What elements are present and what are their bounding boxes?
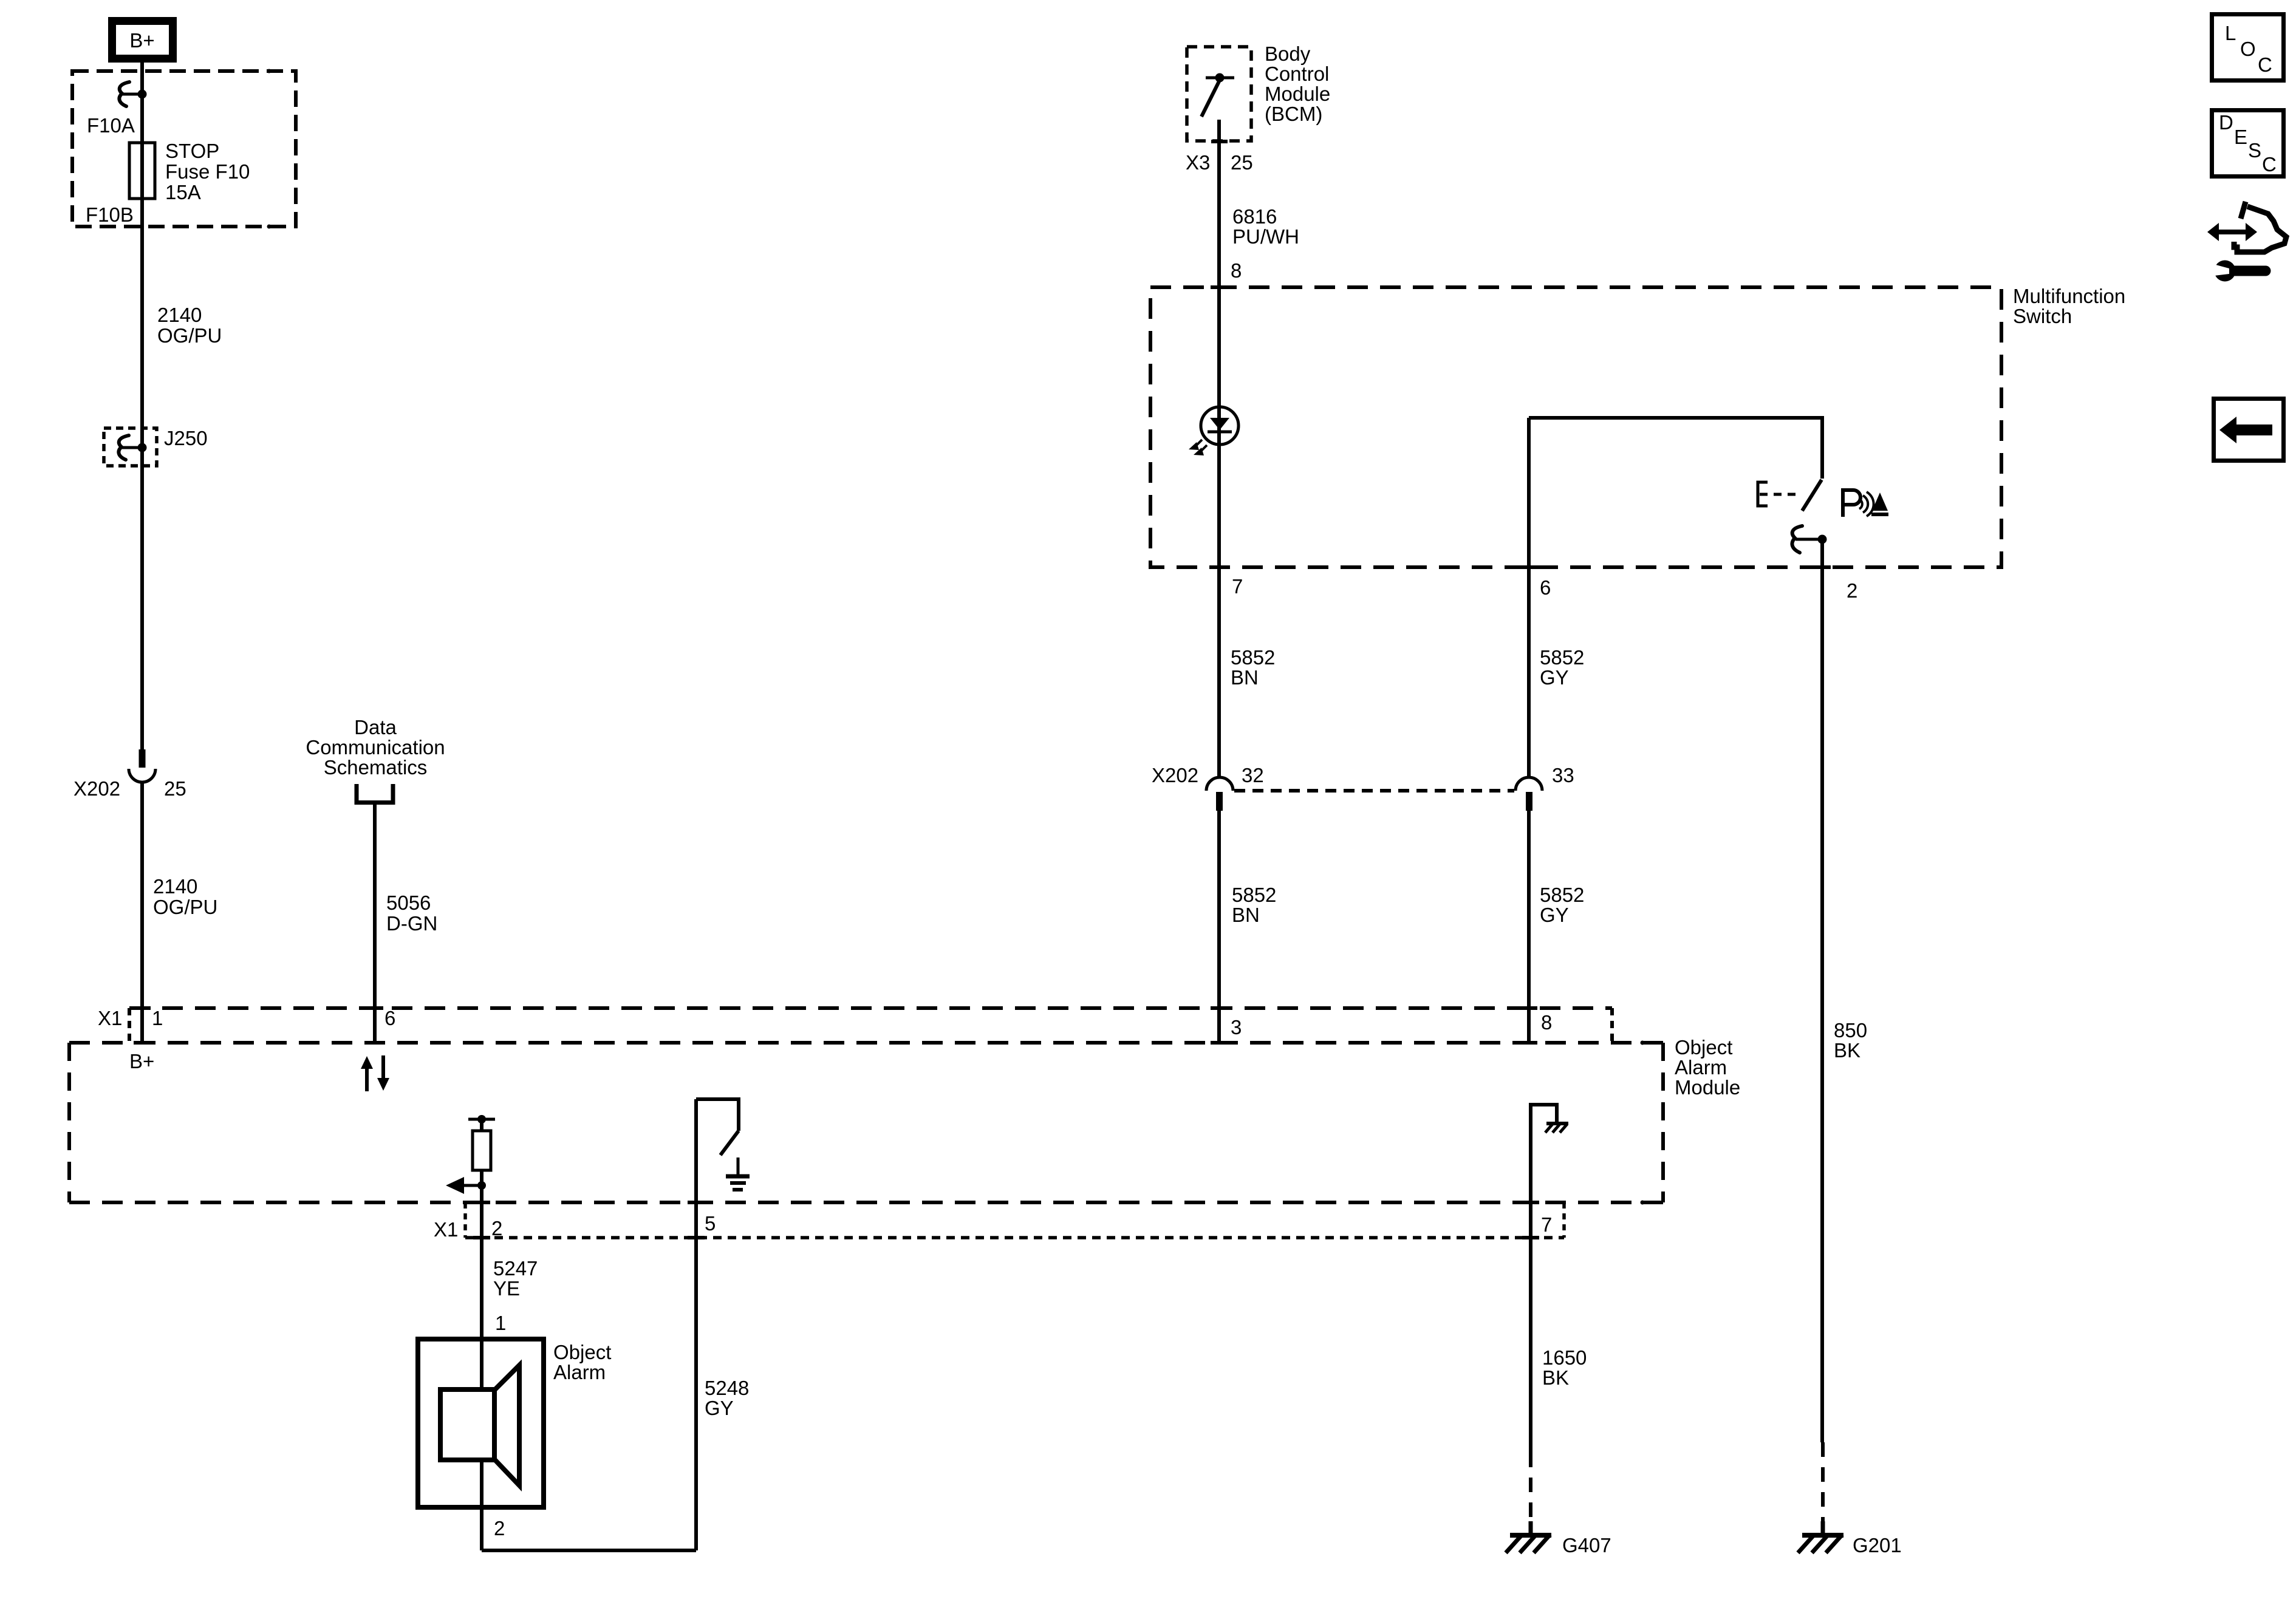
svg-text:Body: Body: [1265, 43, 1311, 65]
LED cathode bar: [1208, 431, 1232, 434]
wire pin5 vertical: [694, 1099, 698, 1550]
internal switch blade: [720, 1131, 739, 1155]
svg-text:OG/PU: OG/PU: [153, 896, 217, 918]
svg-text:2: 2: [494, 1517, 505, 1539]
svg-text:Module: Module: [1265, 83, 1330, 105]
bidirectional data arrows up arrow: [365, 1066, 369, 1091]
svg-text:1650: 1650: [1542, 1346, 1587, 1369]
BCM internal switch bar: [1206, 77, 1234, 80]
icon back arrow: [2219, 417, 2272, 443]
svg-text:D: D: [2219, 111, 2233, 134]
svg-text:L: L: [2225, 22, 2236, 44]
svg-text:S: S: [2248, 139, 2261, 162]
svg-text:G201: G201: [1853, 1534, 1902, 1556]
object alarm module dash-dot dot bottom line: [1641, 1201, 1645, 1205]
wire resistor to junction: [480, 1170, 483, 1185]
internal earth ground stub: [737, 1157, 740, 1174]
connector X202 pin 33 female cap: [1515, 777, 1542, 791]
connector X202 pin 25 male pin: [139, 749, 146, 768]
svg-text:1: 1: [495, 1312, 506, 1334]
internal sensor feed junction dot: [477, 1115, 486, 1123]
wire switch feed vertical GY: [1527, 418, 1531, 778]
LED diode triangle: [1210, 418, 1229, 430]
svg-text:5852: 5852: [1540, 646, 1584, 669]
svg-text:X1: X1: [98, 1007, 122, 1029]
svg-text:D-GN: D-GN: [386, 912, 437, 935]
pin tick wire6 multifunction bottom: [1520, 565, 1537, 569]
pin tick wire5 module bottom: [688, 1201, 705, 1204]
svg-text:BK: BK: [1542, 1366, 1569, 1389]
connector X202 pin 32 male pin: [1216, 792, 1223, 811]
svg-text:2140: 2140: [157, 304, 202, 326]
svg-text:Alarm: Alarm: [1675, 1056, 1727, 1079]
wire switch feed horizontal: [1529, 416, 1822, 420]
svg-text:X1: X1: [434, 1218, 458, 1241]
pin tick wire1 lower: [134, 1041, 151, 1045]
pin tick wire6 lower: [366, 1041, 383, 1045]
svg-text:5248: 5248: [705, 1377, 749, 1399]
pin tick wire3 lower: [1211, 1041, 1228, 1045]
svg-text:X3: X3: [1186, 151, 1210, 174]
park assist switch blade: [1802, 480, 1822, 511]
svg-text:7: 7: [1232, 575, 1243, 598]
park assist switch actuator bracket: [1758, 482, 1768, 506]
wire 2140 below X202: [140, 782, 144, 1043]
wire 5056 D-GN: [373, 805, 377, 1043]
pin tick wire6 upper: [366, 1006, 383, 1010]
pin tick wire2 bottom strip: [473, 1236, 490, 1239]
wire sensor to resistor: [480, 1119, 483, 1131]
wire 850 BK: [1820, 567, 1824, 1442]
wire speaker return horizontal: [482, 1549, 696, 1552]
LED light arrow 1: [1195, 440, 1202, 446]
svg-text:Object: Object: [553, 1341, 611, 1363]
svg-text:15A: 15A: [165, 181, 201, 203]
connector X202 dashed link: [1234, 789, 1514, 793]
icon LOC box: [2212, 15, 2284, 81]
pin tick wire3 upper: [1211, 1006, 1228, 1010]
object alarm module dash-dot dot top line: [1641, 1041, 1645, 1045]
svg-text:5852: 5852: [1232, 884, 1276, 906]
ground G407 symbol: [1510, 1533, 1551, 1538]
connector clip J250: [118, 435, 129, 460]
pin tick wire7 bottom strip: [1522, 1236, 1539, 1239]
fuse block dashed box: [72, 71, 296, 227]
pin tick wire7 multifunction bottom: [1211, 565, 1228, 569]
svg-text:Control: Control: [1265, 63, 1329, 85]
svg-text:Switch: Switch: [2013, 305, 2072, 327]
internal chassis ground wire pin7: [1529, 1103, 1532, 1453]
wire 1650 BK ground stub: [1529, 1521, 1533, 1535]
object alarm speaker box: [418, 1339, 544, 1507]
internal chassis ground hook: [1531, 1105, 1557, 1122]
icon wrench: [2215, 261, 2236, 282]
svg-text:6: 6: [384, 1007, 395, 1029]
svg-text:Fuse F10: Fuse F10: [165, 160, 250, 183]
internal earth ground bars: [726, 1174, 750, 1179]
fuse block dash-dot dot top edge: [267, 69, 272, 73]
pin tick wire7 module bottom: [1522, 1201, 1539, 1204]
svg-text:33: 33: [1552, 764, 1574, 786]
BCM internal switch blade: [1201, 80, 1220, 117]
connector clip switch lower: [1792, 526, 1802, 553]
svg-text:O: O: [2240, 38, 2256, 60]
wire 1650 BK dashed lead: [1529, 1453, 1532, 1523]
svg-text:6816: 6816: [1232, 205, 1277, 228]
connector X1 bottom strip left end: [463, 1202, 467, 1238]
LED light arrow 2: [1200, 445, 1207, 452]
resistor element internal: [473, 1131, 491, 1170]
svg-text:GY: GY: [1540, 904, 1569, 926]
svg-text:STOP: STOP: [165, 140, 219, 162]
wire pin2 internal to speaker: [480, 1185, 483, 1390]
pin tick wire2 multifunction bottom: [1814, 565, 1831, 569]
icon DESC box: [2212, 111, 2284, 177]
B+ power terminal box: [112, 21, 173, 59]
svg-text:BN: BN: [1232, 904, 1260, 926]
svg-text:Schematics: Schematics: [324, 756, 428, 779]
svg-text:2140: 2140: [153, 875, 197, 898]
splice J250 dashed box: [104, 428, 157, 466]
svg-text:6: 6: [1540, 576, 1551, 599]
svg-text:X202: X202: [73, 777, 120, 800]
icon back arrow box: [2214, 399, 2284, 461]
connector clip F10A: [119, 82, 129, 106]
connector X202 pin 33 male pin: [1526, 792, 1532, 811]
svg-text:BK: BK: [1834, 1039, 1860, 1062]
connector X202 pin 25 female cup: [129, 769, 155, 782]
connector X1 bottom strip dotted line: [465, 1236, 1564, 1239]
connector clip F10A lead: [123, 93, 142, 96]
internal sensor feed bar: [468, 1118, 495, 1121]
fuse block dash-dot dot bottom edge: [267, 225, 272, 229]
svg-text:YE: YE: [493, 1277, 520, 1300]
pin tick wire2 module bottom: [473, 1201, 490, 1204]
svg-text:F10A: F10A: [87, 114, 135, 137]
junction dot J250: [138, 443, 147, 452]
svg-text:(BCM): (BCM): [1265, 103, 1322, 125]
wire BCM output 6816: [1217, 120, 1221, 778]
svg-text:Object: Object: [1675, 1036, 1732, 1059]
svg-text:PU/WH: PU/WH: [1232, 225, 1299, 248]
junction dot switch lower: [1818, 535, 1827, 544]
LED indicator circle: [1201, 407, 1239, 445]
speaker body rect: [440, 1389, 494, 1460]
fuse F10 element: [129, 143, 155, 199]
svg-text:G407: G407: [1562, 1534, 1611, 1556]
svg-text:C: C: [2258, 53, 2272, 76]
svg-text:32: 32: [1242, 764, 1264, 786]
svg-text:5852: 5852: [1540, 884, 1584, 906]
connector X1 bottom strip right end: [1562, 1202, 1566, 1238]
svg-text:B+: B+: [129, 29, 154, 52]
wire switch upper contact: [1820, 416, 1824, 479]
svg-text:GY: GY: [1540, 666, 1569, 689]
connector X1 top strip left end: [128, 1008, 131, 1043]
wire 5852 GY lower: [1527, 811, 1531, 1043]
svg-text:Module: Module: [1675, 1076, 1740, 1099]
svg-text:25: 25: [164, 777, 186, 800]
pin tick wire1 upper: [134, 1006, 151, 1010]
object alarm module left edge: [67, 1043, 71, 1202]
pin tick wire8 lower: [1520, 1041, 1537, 1045]
svg-text:850: 850: [1834, 1019, 1867, 1042]
svg-text:5: 5: [705, 1212, 716, 1235]
bidirectional data arrows down arrow: [381, 1055, 385, 1080]
BCM dashed box: [1187, 47, 1251, 141]
svg-text:Communication: Communication: [306, 736, 445, 759]
svg-text:5056: 5056: [386, 892, 431, 914]
wire 850 BK ground stub: [1821, 1521, 1825, 1535]
junction dot signal out: [477, 1181, 486, 1190]
park assist switch actuator dashes: [1760, 493, 1798, 496]
svg-text:F10B: F10B: [86, 203, 134, 226]
svg-text:1: 1: [152, 1007, 163, 1029]
internal switch branch pin5: [696, 1099, 739, 1131]
connector clip switch lower lead: [1795, 538, 1822, 541]
internal chassis ground hatches: [1545, 1124, 1553, 1133]
svg-text:8: 8: [1541, 1011, 1552, 1034]
internal chassis ground bar: [1546, 1122, 1568, 1125]
svg-text:OG/PU: OG/PU: [157, 324, 222, 347]
wire 850 BK dashed lead: [1821, 1442, 1825, 1523]
multifunction switch dashed box: [1150, 287, 2001, 567]
svg-text:BN: BN: [1231, 666, 1259, 689]
off-page bracket data communication: [357, 784, 393, 803]
pin tick BCM bottom: [1211, 140, 1228, 143]
junction dot F10A: [138, 90, 147, 99]
svg-text:Alarm: Alarm: [553, 1361, 606, 1383]
svg-text:3: 3: [1231, 1016, 1242, 1038]
park assist icon sound waves: [1859, 499, 1862, 509]
svg-text:2: 2: [491, 1217, 502, 1239]
ground G201 symbol: [1802, 1533, 1843, 1538]
svg-text:2: 2: [1847, 579, 1857, 602]
pin tick wire8 upper: [1520, 1006, 1537, 1010]
speaker horn: [494, 1365, 519, 1485]
connector X1 top strip right end: [1610, 1008, 1614, 1043]
svg-text:Multifunction: Multifunction: [2013, 285, 2125, 307]
svg-text:C: C: [2262, 153, 2277, 176]
svg-text:E: E: [2234, 126, 2247, 148]
svg-text:5247: 5247: [493, 1257, 538, 1280]
svg-text:Data: Data: [354, 716, 397, 738]
svg-text:X202: X202: [1152, 764, 1198, 786]
pin tick 6816 multifunction top: [1211, 285, 1228, 289]
BCM internal switch contact dot: [1215, 73, 1225, 83]
object alarm module top edge: [69, 1041, 1663, 1045]
park assist icon ground bar: [1871, 513, 1888, 516]
park assist icon obstacle triangle: [1872, 493, 1888, 511]
svg-text:8: 8: [1231, 259, 1242, 282]
icon double arrow: [2207, 223, 2257, 241]
icon car silhouette: [2241, 202, 2246, 219]
pin tick wire5 bottom strip: [688, 1236, 705, 1239]
wire B+ feed (vertical main left wire): [140, 63, 144, 749]
connector X1 top strip upper line: [129, 1006, 1612, 1010]
signal arrow left: [463, 1184, 480, 1187]
connector X202 pin 32 female cap: [1206, 777, 1233, 791]
wire switch to pin 2: [1820, 539, 1824, 567]
svg-text:J250: J250: [164, 427, 208, 449]
svg-text:5852: 5852: [1231, 646, 1275, 669]
object alarm module bottom edge: [69, 1201, 1663, 1204]
connector clip J250 lead: [122, 446, 142, 449]
park assist icon P: [1843, 490, 1860, 517]
svg-text:25: 25: [1231, 151, 1253, 174]
svg-text:GY: GY: [705, 1397, 734, 1419]
wire 5852 BN lower: [1217, 811, 1221, 1043]
object alarm module right edge: [1661, 1043, 1665, 1202]
svg-text:B+: B+: [129, 1050, 154, 1072]
svg-text:7: 7: [1541, 1213, 1552, 1236]
wire speaker to bottom: [480, 1460, 483, 1550]
